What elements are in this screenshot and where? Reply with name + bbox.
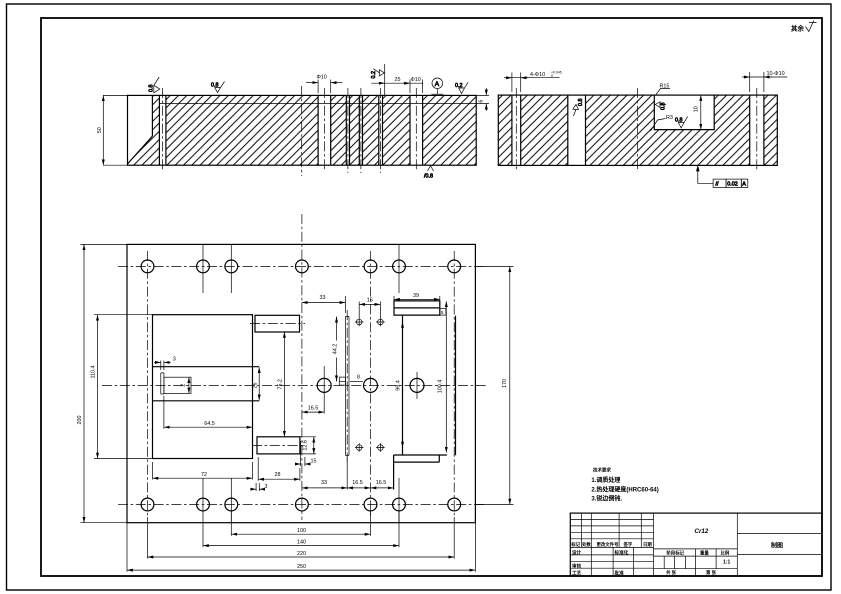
plate body hatched [498,95,777,165]
svg-text:Φ10: Φ10 [317,75,327,81]
column centerline c4 main [301,214,303,520]
svg-text:16.5: 16.5 [376,480,387,486]
svg-text:制图: 制图 [771,542,783,550]
centerline hole V1H5 [380,88,382,173]
hole V2H1 white [512,95,521,165]
middle row centerline [102,384,486,386]
svg-text:200: 200 [77,416,83,425]
dimension phi10 hole V1H2 [318,80,331,94]
hole V2H1 edges [512,95,521,165]
svg-text:10: 10 [694,106,700,112]
svg-text:140: 140 [297,540,306,546]
right cavity right edge [455,316,457,456]
hole V2H2 white [568,95,586,165]
hole V1H3 white [346,95,349,165]
left part vertical lines bottom [591,547,633,576]
middle row circle 1 [317,378,331,392]
svg-text:日期: 日期 [643,541,652,548]
svg-text:100: 100 [297,528,306,534]
column stub c3 top [230,244,232,293]
small hole BR [376,443,385,452]
bottom-right tab [394,455,447,490]
center blade slot [345,317,349,456]
plate body hatched [128,95,477,165]
centerline hole V1H6 [415,88,417,170]
plate outline plan [127,244,475,522]
column stub c2 top [202,244,204,293]
lower tab rectangle [257,437,300,454]
dimension 140 bottom [203,545,399,547]
dimension 10 pocket depth [700,99,702,127]
svg-text:3: 3 [265,484,268,490]
top row bolt circles [141,260,154,273]
upper tab centerline [250,323,305,325]
svg-text:250: 250 [297,564,306,570]
left tapered pocket white cutout [128,95,153,163]
dimension 170 right [475,266,513,504]
svg-text:100.4: 100.4 [438,380,444,394]
svg-text:标记: 标记 [570,541,580,548]
svg-text:批准: 批准 [615,570,625,577]
svg-text:0: 0 [551,74,553,78]
dimension 25 and phi10 hole V1H6 [371,82,423,84]
blade centerline [346,310,348,462]
dimension 4-phi10 [512,73,521,93]
dimension 2 T-slot [188,377,190,393]
svg-text:0.2: 0.2 [455,83,463,89]
hole V2H2 edges [568,95,586,165]
pocket recess white [654,95,714,130]
dimension 44.2 [336,317,338,382]
svg-text:33: 33 [321,480,327,486]
blade small tab [339,377,345,385]
hole V1H5 white [379,95,383,165]
top row centerline [118,265,486,267]
svg-text:技术要求: 技术要求 [593,467,611,474]
centerline hole V1H1 [162,88,164,170]
svg-text:44.2: 44.2 [333,344,339,355]
dimension 3 T-slot width [161,361,164,371]
title block outline [570,513,822,576]
dimension 28 bottom [258,457,300,481]
left part vertical lines top [581,513,641,547]
svg-text:Cr12: Cr12 [695,528,709,535]
svg-text:比例: 比例 [721,549,730,556]
dimension 100.4 [445,301,447,452]
svg-text:签字: 签字 [623,541,633,548]
right cavity left edge and dim 96.4 [402,316,404,456]
svg-text:25: 25 [395,77,401,83]
svg-text://: // [716,182,719,188]
dimension 250 bottom [127,569,475,571]
svg-text:0.8: 0.8 [675,118,683,124]
roughness 0.2 right [455,82,468,93]
svg-text:12.6: 12.6 [303,440,309,451]
T-slot narrow strip [161,373,164,394]
svg-text:设计: 设计 [572,549,582,556]
svg-text:共 张: 共 张 [666,569,677,576]
svg-text:A: A [435,81,440,88]
dimension 39 top right [394,296,440,305]
svg-text:15: 15 [311,458,317,464]
svg-text:8: 8 [357,375,360,381]
column stub c6 top [398,244,400,293]
svg-text:110.4: 110.4 [90,365,96,378]
svg-text:审核: 审核 [572,562,582,569]
label R15 with leader [655,89,670,96]
svg-text:R3: R3 [666,115,673,121]
roughness 0.8 top mid [211,82,225,93]
hole V1H5 edges [379,95,383,165]
dimension 100 bottom [231,533,370,535]
recess step line depth 6 [159,103,476,105]
svg-text:39: 39 [413,293,419,299]
svg-text:6: 6 [479,100,485,103]
hole V1H2 white [318,95,331,165]
dimension 200 left [81,244,128,522]
label R3 with leader [651,119,666,132]
dimension 33 bottom [302,487,347,489]
main axis centerline view1 [301,86,303,176]
dimension 10-phi10 [750,72,764,92]
upper tab rectangle [255,315,300,332]
extension lines bottom dims [231,511,370,536]
dimension 75.2 [283,332,285,437]
column centerline c5 [370,251,372,517]
column stub c2 bottom [202,478,204,523]
svg-text:5: 5 [441,310,444,316]
hole V1H6 white [410,95,423,165]
svg-text:阶段标记: 阶段标记 [667,549,685,556]
svg-text:A: A [742,182,746,188]
right part lines [737,534,822,555]
svg-text:16.5: 16.5 [352,480,363,486]
svg-text:220: 220 [297,551,306,557]
column centerline c7 [453,251,455,517]
svg-text:64.5: 64.5 [204,421,215,427]
svg-text:R15: R15 [660,84,670,90]
svg-text:Φ10: Φ10 [411,77,421,83]
left pocket outline [153,315,253,459]
hole V2H3 edges [750,95,764,165]
svg-text:0.8: 0.8 [578,99,584,107]
column stub c6 bottom [398,478,400,523]
svg-text:1:1: 1:1 [723,560,730,566]
hole V1H1 edges [159,95,166,165]
dimension 72 bottom [153,462,253,480]
left part horizontal lines [570,519,653,568]
svg-text:3.锐边倒钝.: 3.锐边倒钝. [591,494,622,502]
svg-text:0.02: 0.02 [727,182,738,188]
pocket diagonal edge [128,136,153,164]
dimension 16.5 bottom right [371,487,394,489]
svg-text:标准化: 标准化 [614,549,629,556]
svg-text:15: 15 [367,298,373,304]
dimension 220 bottom [148,556,455,558]
bottom row bolt circles [141,498,154,511]
dimension 8 blade tab [350,380,363,382]
svg-text:0.8: 0.8 [149,85,155,93]
middle part dividers [653,513,655,576]
svg-text:0.8: 0.8 [661,103,667,111]
pocket recess outline [654,95,714,130]
pocket edge vertical [151,95,153,136]
channel lower edge [153,400,260,402]
svg-text:工艺: 工艺 [572,570,582,577]
middle row circle 2 [364,378,378,392]
roughness 0.2 rotated at hole V1H5 [371,64,385,95]
svg-text:第 张: 第 张 [706,569,717,576]
roughness 0.8 at hole V1H1 [149,77,160,93]
dimension 16.5 mid [302,411,324,413]
svg-text:重量: 重量 [700,549,709,556]
centerline hole V1H2 [323,88,325,170]
plate outline [498,95,777,165]
dimension 15 small holes [359,302,380,319]
centerline hole V2H1 [515,88,517,171]
top-right tab [394,301,440,315]
datum A symbol [431,78,443,94]
roughness 0.8 pocket bottom [675,117,688,128]
column stub c3 bottom [230,478,232,523]
dimension 15 lower [301,441,305,466]
hole V1H6 edges [410,95,423,165]
centerline hole V1H4 [360,88,362,173]
svg-text:50: 50 [97,127,103,133]
hole V1H1 white [159,95,166,165]
dimension 6 step depth [476,95,489,103]
roughness 0.8 bottom [424,166,434,180]
hole V1H4 edges [359,95,362,165]
bottom row centerline [118,504,486,506]
parallelism feature control frame [697,166,748,187]
dimension 26 channel [258,367,260,400]
svg-text:其余: 其余 [791,24,805,33]
hole V1H2 edges [318,95,331,165]
hole V1H4 white [359,95,362,165]
roughness 0.8 pocket left wall [655,102,666,110]
middle row circle 3 [410,378,424,392]
centerline hole V1H3 [347,88,349,173]
plate outline [128,95,477,165]
svg-text:33: 33 [320,295,326,301]
svg-text:0.2: 0.2 [371,71,377,79]
svg-text:16.5: 16.5 [308,405,319,411]
dimension 64.5 [163,396,165,429]
svg-text:/0.8: /0.8 [424,174,433,180]
dimension 33 top [302,302,346,304]
lower tab centerline [252,444,305,446]
svg-text:28: 28 [275,472,281,478]
svg-text:3: 3 [173,356,176,362]
small hole BL [355,443,364,452]
svg-text:1.调质处理: 1.调质处理 [591,476,620,484]
small hole TL [355,318,364,327]
surface roughness note top right [791,21,817,33]
svg-text:170: 170 [502,379,508,388]
dimension 50 left [102,95,104,165]
channel upper edge [153,366,260,368]
hole V2H3 white [750,95,764,165]
hole V1H3 edges [346,95,349,165]
dimension 110.4 left [94,315,153,459]
svg-text:处数: 处数 [581,541,591,548]
dimension 16.5 bottom left [347,487,370,489]
dimension 12.6 lower tab [300,437,316,454]
column centerline c1 [147,251,149,517]
svg-text:0.8: 0.8 [211,83,219,89]
svg-text:4-Φ10: 4-Φ10 [530,72,545,78]
svg-text:72: 72 [201,472,207,478]
dimension 3 bottom small [256,483,259,491]
centerline main axis view2 [636,88,638,172]
roughness 0.8 in hole V2H2 [573,99,584,117]
T-slot wide rect [164,377,191,393]
svg-text:更改文件号: 更改文件号 [597,541,620,548]
svg-text:75.2: 75.2 [278,379,284,390]
small hole TR [376,318,385,327]
svg-text:10-Φ10: 10-Φ10 [767,71,785,77]
centerline hole V2H3 [756,88,758,171]
svg-text:2.热处理硬度(HRC60-64): 2.热处理硬度(HRC60-64) [591,486,658,494]
